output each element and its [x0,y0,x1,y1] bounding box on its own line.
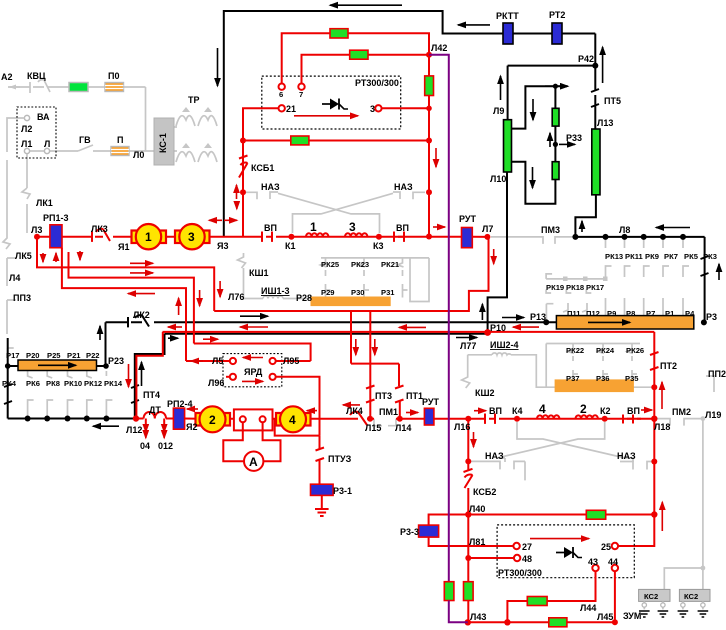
svg-text:27: 27 [522,542,532,552]
svg-text:РУТ: РУТ [422,397,439,407]
svg-text:Л2: Л2 [21,124,32,134]
relay RP2-4 [173,408,184,429]
svg-text:6: 6 [279,90,283,99]
small arrow right below bus C left end [168,337,178,339]
svg-text:Л95: Л95 [283,356,299,366]
contact KSB1 on column [239,156,248,178]
svg-text:П0: П0 [108,71,119,81]
thyristor symbol box1 [322,99,348,110]
svg-text:РК22: РК22 [566,346,584,355]
svg-text:4: 4 [289,413,296,427]
motor 4 [276,413,283,426]
svg-text:ВП: ВП [627,406,640,416]
bar P13 orange [556,316,693,329]
svg-text:Р4: Р4 [685,309,695,318]
wire PT5 to L13 [594,107,596,129]
arrow to A2 [10,86,20,88]
node P3 [701,319,707,325]
wire RP drop + H3 [62,248,186,361]
wire L5 line [186,360,230,362]
svg-text:РК24: РК24 [596,346,615,355]
NAZ nodes [240,189,246,195]
svg-text:НАЗ: НАЗ [617,451,636,461]
wire L81 column down [467,515,469,623]
svg-text:К1: К1 [285,241,296,251]
svg-text:ЛК1: ЛК1 [36,198,53,208]
svg-text:3: 3 [188,230,195,244]
resistor on 6-line [330,29,348,38]
node K2 [602,416,608,422]
arrow down inside loop top [532,99,534,120]
svg-text:Л76: Л76 [228,292,244,302]
contact PT5 [591,66,599,107]
terminal 3 with stub [375,105,381,111]
arrow left above top wire [330,4,402,6]
ammeter loop [223,422,280,461]
svg-text:Р8: Р8 [626,309,635,318]
svg-text:РК5: РК5 [684,252,699,261]
svg-text:ПМ1: ПМ1 [379,407,398,417]
svg-text:КСБ1: КСБ1 [251,163,274,173]
svg-text:А: А [249,455,258,469]
svg-text:Р33: Р33 [566,133,582,143]
node R33 [553,142,558,147]
svg-text:Я3: Я3 [217,241,228,251]
svg-text:Л77: Л77 [460,341,476,351]
contact KSB2 [464,461,473,514]
wire H2 [69,252,194,344]
svg-text:РК11: РК11 [625,252,644,261]
svg-text:ЛК5: ЛК5 [15,251,32,261]
arrow up beside PT4 [141,362,143,386]
svg-text:РК13: РК13 [605,252,623,261]
svg-text:Р13: Р13 [530,312,546,322]
wire PT3/PT1 feeders from Y311 [351,311,399,419]
svg-text:ПТУЗ: ПТУЗ [328,454,352,464]
relay RP1-3 on line [50,225,62,248]
svg-text:НАЗ: НАЗ [261,182,280,192]
svg-text:РК7: РК7 [664,252,678,261]
svg-text:Л14: Л14 [395,423,411,433]
svg-text:Л1: Л1 [21,139,32,149]
wire L42 purple run [429,55,449,582]
coil 1 [306,233,328,236]
svg-text:Л3: Л3 [31,225,42,235]
arrow down beside PT4 red [128,364,130,387]
wire PT2 column [618,332,654,546]
svg-text:РК18: РК18 [566,283,584,292]
svg-text:Л: Л [44,139,50,149]
contact VP K4 [485,414,503,424]
svg-text:44: 44 [608,557,618,567]
svg-text:РК25: РК25 [321,260,340,269]
svg-text:РК23: РК23 [351,260,369,269]
PM2 / L19 gray line [656,419,703,426]
arrow left above LK4 [343,404,360,406]
relay RUT upper [462,228,473,248]
arrow up left of R33 [549,133,551,147]
wire LK2 corner down to R23 bar [97,322,107,366]
motor 1 [132,231,139,244]
svg-text:Л96: Л96 [208,378,224,388]
ground R3-1 [315,509,329,516]
svg-text:КШ2: КШ2 [475,388,495,398]
wire purple bottom corner [449,601,468,623]
arrow up left of LK2 drop [99,326,101,340]
svg-text:Р36: Р36 [596,374,610,383]
svg-text:РК10: РК10 [64,379,82,388]
svg-text:ПТ2: ПТ2 [660,361,677,371]
svg-text:Р25: Р25 [47,351,61,360]
svg-text:Р31: Р31 [381,288,395,297]
svg-text:Р17: Р17 [6,351,20,360]
svg-text:КСБ2: КСБ2 [473,487,496,497]
svg-text:РП1-3: РП1-3 [43,213,68,223]
grounds under KS2 [639,611,650,617]
wire L3 drop + H1 [37,237,214,311]
svg-text:ПМ3: ПМ3 [541,225,560,235]
P17..R22 hooks under R23 bar [28,371,107,378]
wire R42 horizontal [508,65,596,67]
fuse P0 [105,83,124,92]
svg-text:Л15: Л15 [365,423,381,433]
svg-text:Р42: Р42 [578,54,594,64]
node L3 [34,234,40,240]
motor 3 [175,231,182,244]
node K4 [514,416,520,422]
svg-text:Р28: Р28 [296,293,312,303]
main motor line 1-3 [37,236,487,238]
box YARD dotted [223,354,282,387]
svg-text:ПТ1: ПТ1 [406,391,423,401]
wire L95 line [276,360,311,362]
wire PTUZ branch [275,419,320,485]
contact LK2 [128,315,149,327]
wire L10 down [488,172,507,332]
box RT300/300 #1 dotted [262,76,401,129]
svg-text:РТ300/300: РТ300/300 [498,568,542,578]
svg-text:КВЦ: КВЦ [27,71,46,81]
thyristor symbol box2 [556,547,582,558]
svg-text:КС-1: КС-1 [158,133,168,153]
bottom bus L43-L45 [468,621,615,623]
wire L9 feed: R42 left corner down [507,66,509,120]
contact PTUZ [316,448,325,462]
svg-text:Л4: Л4 [9,273,20,283]
node L6 [426,234,432,240]
svg-text:2: 2 [209,413,216,427]
arrow down beside [473,432,475,447]
wire resistor row y140 [243,140,429,142]
black PT4 path [135,334,165,419]
arrow down beside L7 descent [493,249,495,264]
svg-text:РТ2: РТ2 [549,10,565,20]
svg-text:А2: А2 [1,72,13,82]
svg-text:РУТ: РУТ [459,214,476,224]
box KS-1 [154,118,174,165]
svg-text:Л13: Л13 [597,118,613,128]
svg-text:ПП3: ПП3 [13,293,31,303]
svg-text:Л5: Л5 [212,356,223,366]
resistor R33 lower [552,162,559,180]
svg-text:П: П [117,135,123,145]
svg-text:РК14: РК14 [104,379,123,388]
resistor on purple [444,582,454,601]
arrow up beside L8 corner [581,221,583,232]
svg-text:РТ300/300: РТ300/300 [355,78,399,88]
bar R37 orange [555,380,633,392]
svg-text:Л8: Л8 [619,225,630,235]
svg-text:Р23: Р23 [108,356,124,366]
svg-text:Л9: Л9 [493,106,504,116]
node NAZ left [465,458,471,464]
left column LK1 wire [26,154,28,188]
contact KVTs [30,80,50,93]
arrow right after VP label [641,409,652,411]
float arrows in cluster [42,253,44,262]
svg-text:ТР: ТР [188,95,200,105]
wire L96 stub left [226,376,230,378]
svg-text:ИШ1-3: ИШ1-3 [261,286,290,296]
svg-text:ВП: ВП [396,223,409,233]
svg-text:25: 25 [601,542,611,552]
svg-text:Р3: Р3 [706,312,717,322]
fuse P [111,147,129,156]
wire A2-KVTs-P0 top-left gray feeder [8,86,30,88]
node K1 [288,234,294,240]
bus C red [163,331,655,333]
arrow up beside 25-column [661,502,663,531]
relay R3-1 [311,484,334,495]
KSh1 hook and ISh1-3 shunt wire [238,253,264,299]
svg-text:ЛК3: ЛК3 [91,224,108,234]
gray columns down to P13 bar [606,310,684,315]
box VA dotted [17,107,56,158]
motor 2 [196,413,203,426]
resistor on L42 column [425,76,434,96]
node K3 [376,234,382,240]
wire 48 line [468,557,514,559]
PM3 gray link [491,237,575,244]
node on bus A near P13 [543,319,549,325]
red double arrow left of Ya3 node [209,219,222,221]
box between motors with terminals [234,409,273,430]
svg-text:Я2: Я2 [186,422,197,432]
svg-text:Л18: Л18 [654,422,670,432]
svg-text:4: 4 [539,402,546,416]
svg-text:Л10: Л10 [490,174,506,184]
arrows in YRD [243,357,263,359]
bar R28 orange [311,297,390,306]
svg-text:21: 21 [286,104,296,114]
wire R23 bar left + RK4 drop [8,338,18,419]
svg-text:ВП: ВП [489,406,502,416]
red PT4 feeder beside black [136,332,162,419]
svg-text:Р1: Р1 [665,309,675,318]
arrow right VP left [474,410,486,412]
svg-text:Р7: Р7 [646,309,655,318]
wire terminal7 riser + resistor line [302,55,430,84]
node L16 [465,416,471,422]
P11 hook above P13 bar [546,304,553,320]
svg-text:ДТ: ДТ [149,405,161,415]
PP2 bracket [706,376,714,392]
contact PT4 ticks [131,385,139,403]
NAZ crossover left (motors 1-3) [246,192,278,199]
coil 2 [576,415,598,418]
svg-text:ЯРД: ЯРД [244,367,263,377]
PM1 break under motor line [374,419,396,426]
svg-text:РК8: РК8 [46,379,60,388]
resistor L13 [592,129,600,195]
relay R3-3 [419,525,439,537]
bar R23 orange [18,360,97,371]
arrow right at R33 [559,143,575,145]
svg-text:ВП: ВП [264,223,277,233]
svg-text:П11: П11 [567,309,581,318]
arrow up beside L9 [500,76,502,100]
wire RT2 down to R42 node [594,34,596,66]
svg-text:Р30: Р30 [351,288,365,297]
left edge LK5/L4/PP3 brackets [3,160,10,249]
svg-text:Л43: Л43 [470,612,486,622]
svg-text:3: 3 [370,104,375,114]
svg-text:012: 012 [158,441,173,451]
NAZ crossover right (motors 4-2) [517,422,633,462]
motor line across 2 and 4 [225,418,654,420]
box RT300/300 #2 dotted [497,525,634,578]
svg-text:НАЗ: НАЗ [485,451,504,461]
node L7 [484,234,490,240]
svg-text:ЛК4: ЛК4 [346,406,363,416]
terminal 7 [298,84,304,90]
arrow up beside R42 [602,47,604,83]
svg-text:7: 7 [299,90,303,99]
bus junction dots [572,234,578,240]
wire 43 to L44 resistor [547,571,595,601]
arrow right L77 [456,337,477,339]
svg-text:Л42: Л42 [431,43,447,53]
arrow left above RP2-4 [187,408,198,410]
wire terminal6 riser + resistor line [282,33,429,83]
wire L40 to PT2 column [468,514,654,516]
svg-text:ГВ: ГВ [79,135,91,145]
contact VP right lower [623,415,641,424]
svg-text:ЛК2: ЛК2 [133,310,150,320]
svg-text:НАЗ: НАЗ [394,182,413,192]
svg-text:Л19: Л19 [705,410,721,420]
node L18 [651,416,657,422]
taps 04/012 with arrows [146,419,164,429]
wire Y311 feeder [214,237,488,311]
wire top black loop from node above Ya3 to RKTT/RT2 [224,11,596,237]
svg-text:2: 2 [580,402,587,416]
svg-text:РК21: РК21 [381,260,400,269]
svg-text:Р22: Р22 [86,351,100,360]
resistor L9/L10 tall [504,120,512,172]
contact LK3 [92,229,110,242]
relay RUT lower [424,408,434,425]
node at gray join [651,384,657,390]
bus black A: LK2 to P13 bar [106,321,557,323]
contact VP left [262,232,281,242]
svg-text:РК17: РК17 [586,283,604,292]
arrow right before RUT2 [406,412,418,414]
arrow left above L8 bus [656,227,690,229]
svg-text:РК26: РК26 [626,346,644,355]
svg-text:Л40: Л40 [469,504,485,514]
svg-text:КС2: КС2 [644,592,658,601]
float arrows left on bus C [168,326,182,328]
RK25/RK23/RK21 gray box [321,257,429,259]
gray stub from L2 left [7,118,24,152]
contact PT1 with jog [395,386,404,419]
arrow in box2 [530,538,589,540]
svg-text:Р3-1: Р3-1 [333,486,352,496]
svg-text:Р10: Р10 [490,323,506,333]
wire 44 down [614,571,616,622]
svg-text:Р29: Р29 [321,288,335,297]
nodes L15 L14 [367,416,373,422]
svg-text:1: 1 [145,230,152,244]
terminals 27 48 25 43 44 [513,543,519,549]
arrow left above bottom bus [93,425,119,427]
coil DT [144,412,166,418]
svg-text:Л81: Л81 [469,537,485,547]
arrow right above bus D [203,338,218,340]
svg-text:Р21: Р21 [67,351,81,360]
coil 4 [537,415,559,418]
wire L42 column down [428,55,430,237]
black#2 bus under red bus C [165,333,488,335]
svg-text:РК4: РК4 [2,379,17,388]
svg-text:04: 04 [140,441,150,451]
coil 3 [345,233,367,236]
fuse green KVTs line [69,83,88,92]
svg-text:43: 43 [588,557,598,567]
svg-text:РК12: РК12 [84,379,102,388]
resistor on L40 line [586,510,605,519]
svg-text:ЗУМ: ЗУМ [623,611,641,621]
svg-text:3: 3 [349,220,356,234]
contact PT3 [366,386,375,403]
bus D to YRD [194,344,311,362]
RK13..RK3 column hooks under bus [606,239,612,310]
bus bottom left to L12 [8,418,136,420]
TR windings [176,116,195,126]
svg-text:Р3-3: Р3-3 [400,527,419,537]
relay RKTT [503,23,513,44]
arrow up beside KSB1 [236,185,238,199]
svg-text:К4: К4 [512,406,523,416]
svg-text:Р37: Р37 [566,374,580,383]
arrow up beside PT2 [661,382,663,409]
svg-text:Я1: Я1 [118,242,129,252]
contact LK4 [346,412,367,425]
terminal circles L2 L1 L [24,115,29,120]
arrow down inside loop bottom [532,167,534,188]
wire inner loop with R33 taps [512,86,568,128]
RK6..RK14 hooks above lower bus [28,400,113,416]
svg-text:ПП2: ПП2 [708,369,726,379]
svg-text:РК3: РК3 [703,252,717,261]
terminal 6 [279,84,285,90]
terminal 21 with wire to KSB1 column [279,105,285,111]
arrow left above motor4 right [307,410,317,412]
svg-text:КШ1: КШ1 [249,268,269,278]
svg-text:КС2: КС2 [684,592,698,601]
contact RK3 [701,256,709,276]
